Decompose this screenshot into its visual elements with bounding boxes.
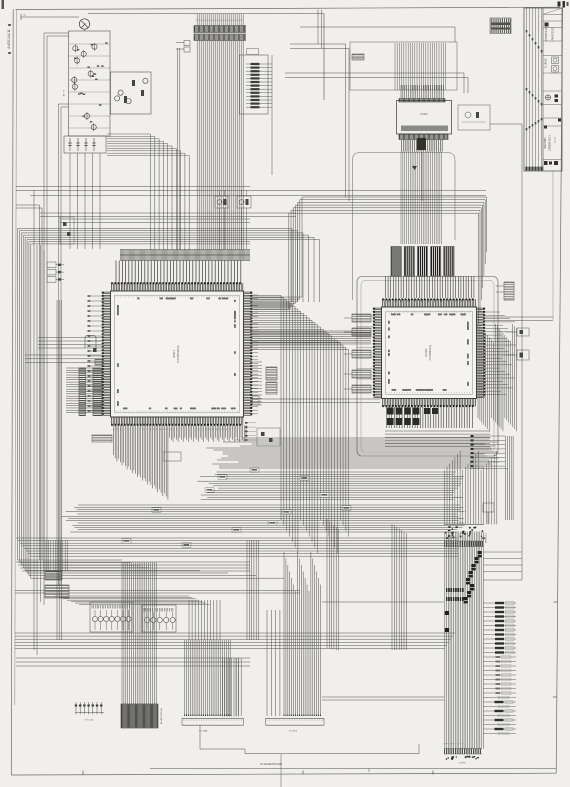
svg-text:B/L-A370-E35-SG: B/L-A370-E35-SG xyxy=(160,707,163,724)
svg-text:AU TV: AU TV xyxy=(63,89,66,96)
svg-text:TO P/S: TO P/S xyxy=(458,763,466,765)
svg-text:AV-MULTI: AV-MULTI xyxy=(485,533,488,543)
svg-text:TO CASSETTE PWB: TO CASSETTE PWB xyxy=(260,763,282,766)
svg-text:CXD8530CQ: CXD8530CQ xyxy=(176,345,180,363)
svg-text:B75097A-00: B75097A-00 xyxy=(545,26,548,41)
svg-text:TO LCD: TO LCD xyxy=(85,720,93,722)
svg-text:CXD8561Q: CXD8561Q xyxy=(428,344,432,360)
svg-text:PROCESS: PROCESS xyxy=(551,27,555,40)
svg-text:PAR15081: PAR15081 xyxy=(544,137,547,149)
svg-text:TO SYS: TO SYS xyxy=(289,731,298,733)
svg-text:CB9584-01C+: CB9584-01C+ xyxy=(549,135,552,151)
svg-text:'11.06.03: '11.06.03 xyxy=(544,58,547,68)
svg-text:A-652-244-11: A-652-244-11 xyxy=(7,29,11,48)
svg-text:L1-1-1: L1-1-1 xyxy=(555,136,557,143)
svg-text:IC303: IC303 xyxy=(421,112,428,116)
